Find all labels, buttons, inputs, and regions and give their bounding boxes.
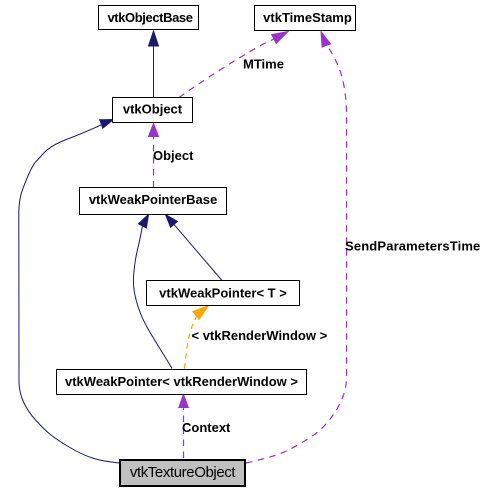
class box vtkObjectBase bbox=[99, 6, 199, 30]
svg-text:vtkTimeStamp: vtkTimeStamp bbox=[263, 10, 352, 25]
template relation arrow vtkWeakPointer&lt;vtkRenderWindow&gt; to vtkWeakPointer&lt;T&gt; bbox=[185, 306, 209, 369]
class box vtkWeakPointer&lt; T &gt; bbox=[147, 281, 300, 306]
usage arrow vtkTextureObject to vtkTimeStamp, label SendParametersTime bbox=[246, 32, 347, 464]
svg-text:MTime: MTime bbox=[243, 57, 284, 72]
inheritance arrow vtkWeakPointer&lt;T&gt; to vtkWeakPointerBase bbox=[166, 215, 223, 281]
svg-text:vtkWeakPointer< T >: vtkWeakPointer< T > bbox=[159, 286, 287, 301]
svg-text:SendParametersTime: SendParametersTime bbox=[345, 239, 480, 254]
svg-text:vtkObject: vtkObject bbox=[123, 102, 183, 117]
svg-text:vtkObjectBase: vtkObjectBase bbox=[107, 10, 192, 25]
current class box vtkTextureObject (grey filled) bbox=[120, 460, 245, 486]
class box vtkTimeStamp bbox=[255, 6, 356, 31]
class box vtkObject bbox=[113, 98, 193, 123]
class box vtkWeakPointer&lt; vtkRenderWindow &gt; bbox=[57, 370, 307, 395]
usage arrow vtkObject to vtkTimeStamp, label MTime bbox=[179, 32, 288, 98]
class box vtkWeakPointerBase bbox=[80, 188, 227, 215]
usage arrow vtkTextureObject to vtkWeakPointer&lt;vtkRenderWindow&gt;, label Context bbox=[179, 395, 189, 459]
svg-text:Context: Context bbox=[182, 420, 231, 435]
svg-text:vtkWeakPointerBase: vtkWeakPointerBase bbox=[89, 192, 217, 207]
svg-text:Object: Object bbox=[153, 148, 194, 163]
inheritance arrow vtkWeakPointer&lt;vtkRenderWindow&gt; to vtkWeakPointerBase bbox=[133, 215, 172, 369]
svg-text:< vtkRenderWindow >: < vtkRenderWindow > bbox=[192, 328, 328, 343]
svg-text:vtkWeakPointer< vtkRenderWindo: vtkWeakPointer< vtkRenderWindow > bbox=[65, 374, 298, 389]
inheritance arrow vtkTextureObject to vtkObject (big left curve) bbox=[19, 120, 120, 464]
inheritance arrow vtkObject to vtkObjectBase bbox=[149, 31, 159, 98]
svg-text:vtkTextureObject: vtkTextureObject bbox=[130, 464, 237, 481]
usage arrow vtkWeakPointerBase to vtkObject, label Object bbox=[149, 124, 159, 188]
